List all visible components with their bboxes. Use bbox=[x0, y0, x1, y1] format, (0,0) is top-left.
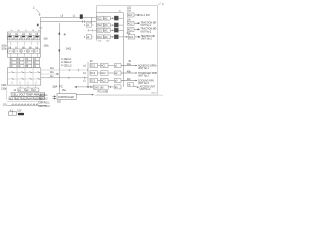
wire bus line B (negative DC link) bbox=[40, 21, 96, 23]
accessory row B box M1 bbox=[127, 13, 150, 17]
enclosure corner leader bbox=[158, 3, 162, 6]
svg-text:DC2: DC2 bbox=[97, 25, 102, 27]
enclosure 2 left edge upper segment bbox=[96, 6, 98, 41]
wire row 4 feeder crossing to accessory bbox=[123, 36, 127, 38]
svg-text:OUT2: OUT2 bbox=[151, 92, 157, 94]
contactor grid frame 120 bbox=[7, 68, 41, 85]
aux row 3 converter box bbox=[90, 78, 98, 82]
svg-text:14(2): 14(2) bbox=[66, 48, 72, 50]
fuse F1 on bus line A bbox=[80, 14, 83, 18]
svg-text:CAN NO.2: CAN NO.2 bbox=[38, 105, 50, 108]
converter row 3: filter bbox=[104, 28, 110, 32]
svg-text:100a: 100a bbox=[1, 45, 7, 47]
tick right of charger bbox=[109, 86, 111, 88]
up arrowhead on main vertical bbox=[58, 32, 60, 35]
aux vertical wire bbox=[87, 62, 89, 87]
svg-text:DC4: DC4 bbox=[97, 37, 102, 39]
figure reference numeral 1 with leader arrow bbox=[33, 6, 41, 16]
svg-text:COOLING FAN: COOLING FAN bbox=[138, 79, 154, 82]
accessory row D box M2 bbox=[127, 21, 156, 27]
svg-text:120b: 120b bbox=[1, 85, 7, 87]
battery module B9 bbox=[28, 49, 34, 54]
svg-text:ACCESS UNIT: ACCESS UNIT bbox=[140, 86, 156, 89]
battery module B6 bbox=[8, 49, 14, 54]
svg-text:SIG-IN 1: SIG-IN 1 bbox=[38, 94, 48, 97]
battery module B2 bbox=[15, 35, 21, 40]
battery module B4 bbox=[28, 35, 34, 40]
svg-text:UNIT No.3: UNIT No.3 bbox=[138, 83, 150, 85]
wire row 2 to feeder bbox=[118, 24, 123, 26]
relay box row 2 bbox=[10, 61, 40, 65]
grid vertical 3 bbox=[32, 68, 34, 85]
battery module B10 bbox=[35, 49, 40, 54]
grid rail 1 bbox=[7, 72, 41, 74]
aux row 1 inverter box bbox=[101, 63, 109, 67]
svg-text:CHG 160: CHG 160 bbox=[94, 87, 104, 89]
svg-text:UNIT No.2: UNIT No.2 bbox=[138, 76, 150, 78]
svg-text:CAN NO.1: CAN NO.1 bbox=[38, 101, 50, 104]
sensor box s2 bbox=[26, 88, 32, 92]
aux row 2 inverter box bbox=[101, 71, 109, 75]
relay box row 1 bbox=[10, 58, 40, 62]
sensor box s1 bbox=[18, 88, 24, 92]
svg-text:CONTROLLER: CONTROLLER bbox=[58, 97, 74, 99]
sensor riser ticks bbox=[21, 85, 36, 88]
main vertical wire bus to controller bbox=[58, 23, 60, 94]
svg-text:AC: AC bbox=[105, 29, 109, 32]
svg-text:-10b: -10b bbox=[43, 38, 48, 40]
svg-text:DC1: DC1 bbox=[91, 66, 96, 68]
monitor box row m4 bbox=[28, 97, 33, 100]
svg-text:100b: 100b bbox=[1, 49, 7, 51]
svg-text:12V: 12V bbox=[17, 110, 22, 112]
wire row 3 to feeder bbox=[118, 29, 123, 31]
monitor bus box 101 bbox=[11, 92, 44, 96]
converter row 4: DC/DC bbox=[97, 35, 104, 39]
inverter module dark row 4 bbox=[114, 35, 118, 39]
aux row 1 converter box bbox=[90, 63, 98, 67]
aux row 4 box right bbox=[128, 83, 134, 87]
grid rail 2 bbox=[7, 78, 41, 80]
aux row 4 arrow bbox=[134, 85, 138, 88]
grid lower ticks bbox=[12, 81, 36, 84]
svg-text:1c: 1c bbox=[25, 30, 27, 32]
converter row 2: filter bbox=[104, 23, 110, 27]
feeder supply wire vertical bbox=[122, 13, 124, 87]
svg-text:AC4: AC4 bbox=[129, 36, 134, 39]
battery module B8 bbox=[21, 49, 27, 54]
left riser faint bbox=[6, 86, 8, 100]
controller box 150 bbox=[57, 94, 76, 100]
battery pack 100 outline bbox=[7, 32, 40, 57]
pack bottom ticks bbox=[11, 53, 38, 56]
svg-text:TRACTION MD: TRACTION MD bbox=[140, 28, 156, 31]
svg-text:SIG-IN 2: SIG-IN 2 bbox=[38, 98, 48, 101]
wire connector bus A down to converter K2 bbox=[91, 17, 93, 23]
accessory row F box M4 bbox=[128, 34, 155, 40]
svg-text:AQUEOUS UREA: AQUEOUS UREA bbox=[138, 64, 157, 67]
svg-text:101: 101 bbox=[3, 103, 8, 106]
aux row 1 arrow bbox=[121, 65, 136, 67]
svg-text:PCU LINE: PCU LINE bbox=[98, 91, 109, 93]
grid vertical 1 bbox=[16, 68, 18, 85]
wire bus line A (positive DC link) bbox=[41, 16, 98, 18]
wire arrow row 3 bbox=[110, 29, 113, 31]
svg-text:F-CELL3: F-CELL3 bbox=[61, 65, 72, 68]
faint separator line bbox=[7, 100, 45, 102]
relay box row 3 bbox=[10, 65, 40, 69]
aux row 3 inverter box bbox=[101, 78, 109, 82]
second arrowhead on charge wire bbox=[86, 86, 88, 88]
ticks on row a bbox=[69, 69, 87, 71]
converter row 1: DC/DC bbox=[97, 16, 104, 20]
ticks on row c bbox=[69, 77, 85, 79]
contactor dot k2 row bbox=[12, 78, 41, 80]
node tick 14b bbox=[37, 24, 39, 27]
sensor box s3 bbox=[33, 88, 39, 92]
svg-text:120a: 120a bbox=[1, 88, 7, 90]
converter row 3: DC/DC bbox=[97, 28, 104, 32]
monitor box row m2 bbox=[15, 97, 20, 100]
input box K4 row 4 bbox=[85, 35, 94, 39]
feeder supply wire horizontal bbox=[97, 12, 124, 14]
wire relay row c bbox=[41, 77, 88, 79]
charge wire with left arrowhead bbox=[75, 86, 115, 88]
monitor box row m1 bbox=[9, 97, 14, 100]
svg-text:rC: rC bbox=[34, 65, 37, 68]
svg-text:DC2: DC2 bbox=[91, 73, 96, 75]
monitor box row m3 bbox=[21, 97, 26, 100]
svg-text:DC1: DC1 bbox=[97, 18, 102, 20]
aux row 1 wires bbox=[98, 65, 115, 67]
battery ECU box 170 bbox=[8, 112, 16, 115]
wire row 1 to feeder bbox=[118, 17, 123, 19]
pack mid ticks bbox=[11, 42, 38, 45]
converter row 2: DC/DC bbox=[97, 23, 104, 27]
ticks on charge wire bbox=[91, 86, 92, 88]
arrowhead into vertical row b bbox=[57, 73, 59, 75]
svg-text:DC3: DC3 bbox=[91, 81, 96, 83]
svg-text:AC2: AC2 bbox=[101, 72, 106, 75]
controller output arrow bbox=[76, 94, 93, 96]
battery module B3 bbox=[21, 35, 27, 40]
signal rail wire bbox=[7, 105, 47, 107]
aux row 1 out box bbox=[114, 64, 121, 68]
svg-text:AC2: AC2 bbox=[128, 22, 133, 25]
aux row 3 arrow bbox=[121, 80, 136, 82]
svg-text:No.1 303: No.1 303 bbox=[140, 15, 150, 17]
svg-text:AC: AC bbox=[105, 24, 109, 27]
svg-text:UNIT No.1: UNIT No.1 bbox=[138, 68, 150, 70]
wire relay row a bbox=[41, 69, 88, 71]
svg-text:TRACTION MD: TRACTION MD bbox=[140, 22, 156, 25]
aux row 2 arrow bbox=[121, 72, 136, 74]
grid vertical 2 bbox=[24, 68, 26, 85]
aux row 3 out box bbox=[114, 79, 121, 83]
converter row 4: filter bbox=[104, 35, 110, 39]
svg-text:-100c: -100c bbox=[43, 46, 50, 48]
monitor box row m6 bbox=[40, 97, 45, 100]
aux row 4 out box bbox=[114, 85, 121, 89]
svg-text:L(2): L(2) bbox=[127, 7, 131, 9]
wire arrow row 4 bbox=[110, 36, 113, 38]
wire arrow row 2 bbox=[110, 24, 113, 26]
svg-text:d1 d2 d3 d4 d5 d6 d7 d8 d9: d1 d2 d3 d4 d5 d6 d7 d8 d9 bbox=[12, 104, 40, 106]
accessory row E box M3 bbox=[127, 27, 156, 33]
contactor dot k1 bbox=[12, 71, 41, 73]
inverter module dark row 3 bbox=[114, 28, 118, 32]
enclosure 2 top edge bbox=[97, 5, 158, 7]
battery module B1 bbox=[8, 35, 14, 40]
svg-text:1: 1 bbox=[33, 6, 35, 10]
aux row 2 wires bbox=[98, 72, 115, 74]
faint long signal line bbox=[95, 94, 164, 96]
battery module B5 bbox=[35, 35, 40, 40]
wire arrow row 1 bbox=[110, 17, 113, 19]
inverter module dark row 1 bbox=[114, 16, 118, 20]
junction ticks on bus line B bbox=[83, 20, 85, 22]
svg-text:UNIT No.1: UNIT No.1 bbox=[140, 25, 152, 27]
charger label box 160 bbox=[93, 85, 108, 89]
svg-text:AC1: AC1 bbox=[128, 14, 133, 17]
wire relay row b bbox=[41, 73, 60, 75]
svg-text:10A FC: 10A FC bbox=[52, 85, 63, 89]
enclosure 2 right edge bbox=[157, 6, 159, 96]
down arrowhead on main vertical bbox=[58, 50, 60, 53]
svg-text:UNIT No.3: UNIT No.3 bbox=[141, 39, 153, 41]
inverter module dark row 2 bbox=[114, 23, 118, 27]
svg-text:AC3: AC3 bbox=[128, 29, 133, 32]
enclosure 2 bottom edge bbox=[97, 94, 158, 96]
row 3 input ticks bbox=[87, 29, 96, 31]
svg-text:AC1: AC1 bbox=[101, 65, 106, 68]
converter row 1: filter bbox=[104, 16, 110, 20]
input box K2 row 2 bbox=[85, 23, 94, 27]
svg-text:AC3: AC3 bbox=[101, 80, 106, 83]
arrows into controller bbox=[52, 96, 55, 100]
pack mid rail bbox=[7, 41, 40, 43]
svg-text:UNIT No.2: UNIT No.2 bbox=[140, 31, 152, 33]
dark blob 170 bbox=[18, 113, 24, 115]
battery module B7 bbox=[15, 49, 21, 54]
wire row 4 to feeder bbox=[118, 36, 123, 38]
aux row 2 converter box bbox=[90, 71, 98, 75]
svg-text:HEATING MD: HEATING MD bbox=[141, 35, 156, 38]
svg-text:AC: AC bbox=[105, 17, 109, 20]
aux row 3 wires bbox=[98, 80, 115, 82]
aux row 2 out box bbox=[114, 71, 121, 75]
svg-text:DC3: DC3 bbox=[97, 30, 102, 32]
svg-text:UNIT No.4: UNIT No.4 bbox=[140, 89, 152, 91]
svg-text:AC: AC bbox=[105, 36, 109, 39]
junction cross bbox=[64, 33, 67, 36]
monitor box row m5 bbox=[34, 97, 39, 100]
wire riser from battery pack to bus bbox=[40, 17, 42, 32]
